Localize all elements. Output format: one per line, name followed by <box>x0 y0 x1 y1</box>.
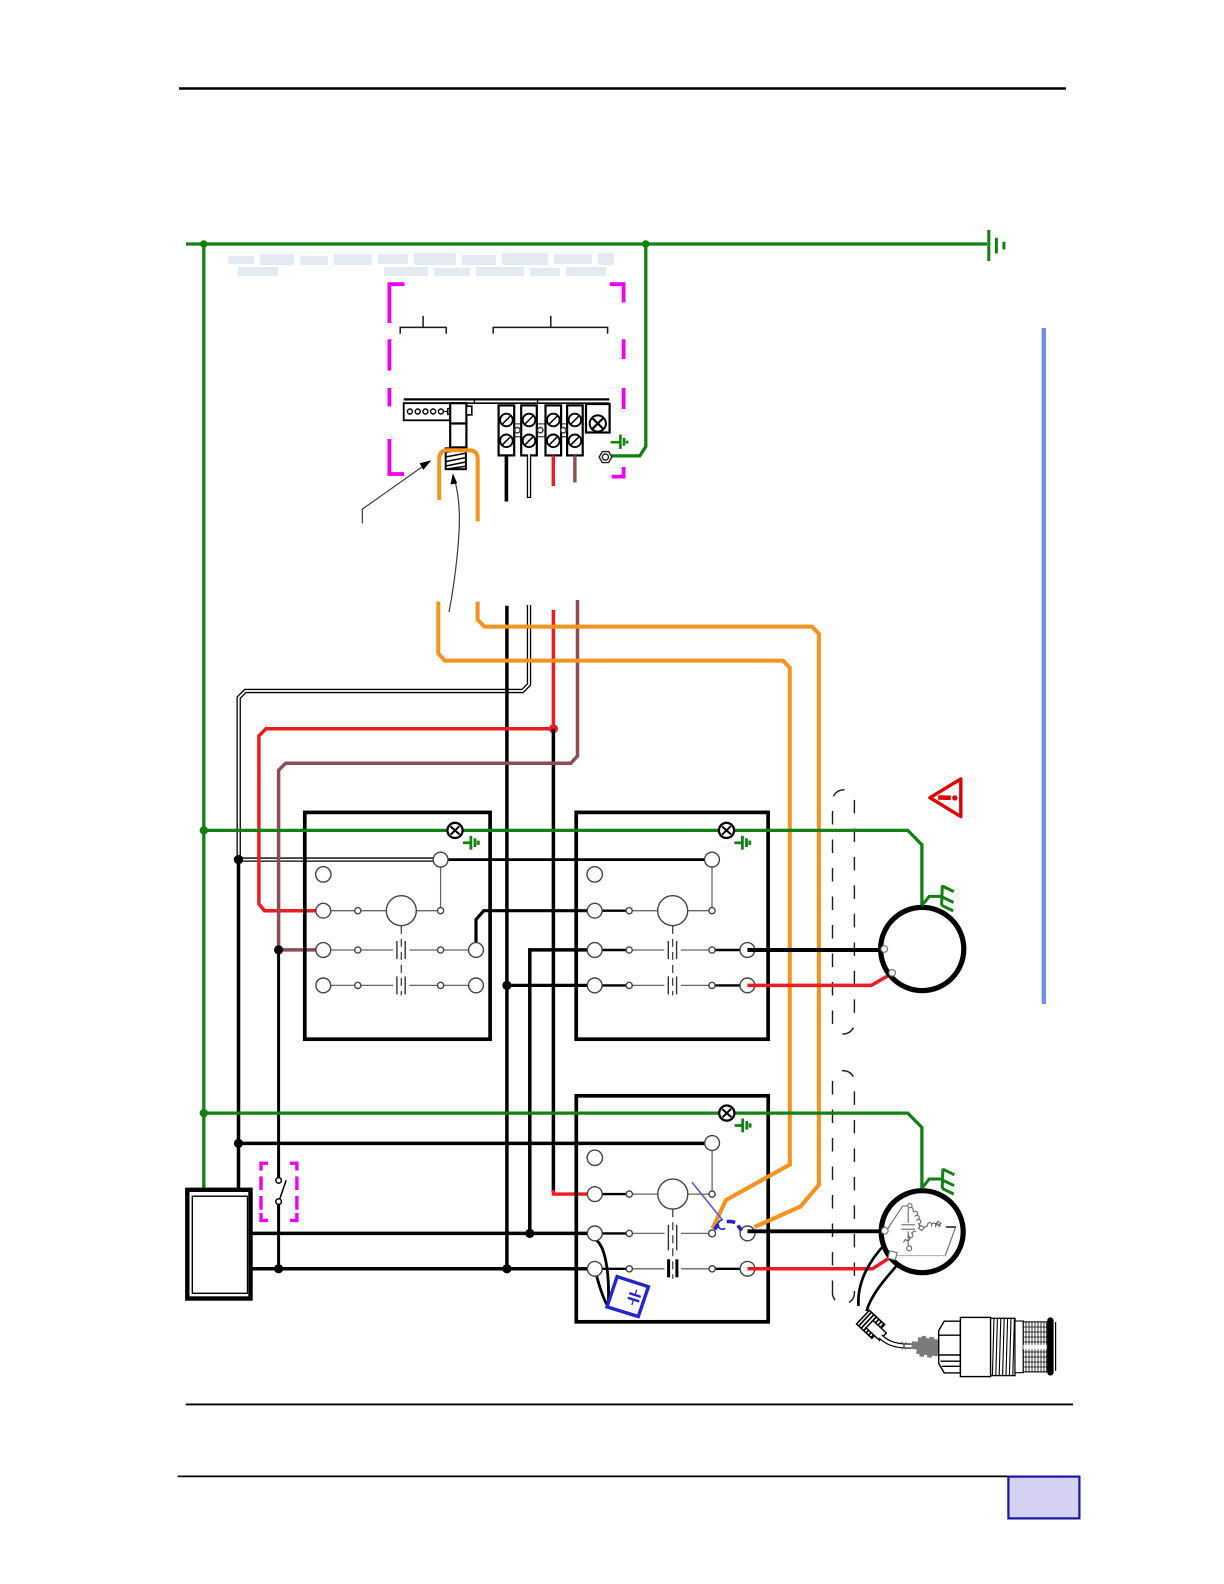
cable: thin cord from ferrule to plug <box>881 1337 913 1347</box>
node: junction with link vertical <box>525 1229 534 1238</box>
ghost text band <box>228 253 614 276</box>
footer rule 1 <box>186 1403 1073 1405</box>
ground: mini earth at K2 screw <box>734 836 749 850</box>
node: red junction <box>549 724 558 733</box>
wire: red run from terminal block to K1 coil <box>552 610 556 729</box>
switch S1 (key switch) <box>276 1178 286 1269</box>
motor M1 circle <box>881 907 964 990</box>
capacitor C1 leads <box>596 1240 609 1304</box>
connector: O-ring end <box>1047 1321 1053 1373</box>
header rule <box>179 87 1066 90</box>
footer rule 2 <box>178 1475 1080 1477</box>
wire: black battery row to K3 row3 <box>251 1267 588 1271</box>
relay contact dashed arc (blue) <box>715 1220 742 1231</box>
ground: earth symbol top right <box>989 230 1004 261</box>
wire: black branch from white junction down to battery charger <box>237 860 241 1190</box>
sidebar change bar (blue) <box>1042 328 1046 1004</box>
wire: black M2 feed from K3 row2 <box>748 1229 883 1233</box>
callout box: hand-held programmer (magenta dashed) <box>389 284 623 476</box>
wire: orange A from terminal area to K3 contact <box>438 602 790 1229</box>
warning triangle <box>930 779 961 817</box>
node: white wire junction dot <box>234 855 243 864</box>
wire: PE left vertical drop <box>202 244 205 1190</box>
connector: small gray plug <box>910 1335 940 1359</box>
connector: hatched plug tail <box>446 448 466 469</box>
contactor K3 internals <box>587 1136 755 1307</box>
wire: orange A tail into K3 (overlay) <box>713 1160 790 1228</box>
wire: red M2 feed from K3 row3 <box>748 1257 891 1268</box>
wire: PE bus 1 across contactors <box>204 830 922 907</box>
node: junction long black run <box>502 1264 511 1273</box>
node: junction on black run at K2 row3 <box>502 981 511 990</box>
screw: PE screw on K1 <box>447 823 462 838</box>
connector: control plug body <box>450 403 472 447</box>
contactor K1 outline <box>305 812 490 1039</box>
wire: orange loop over plug tail <box>439 450 478 521</box>
capacitor C1 (blue box) <box>607 1277 648 1317</box>
contactor K2 internals <box>587 852 755 995</box>
wire: red pigtail from terminal 3 <box>552 455 555 486</box>
wire: PE bus 2 across K3 <box>204 1113 922 1191</box>
motor M2 circle <box>881 1191 963 1273</box>
terminal: M2 connection points <box>882 1227 889 1234</box>
motor M2 internal winding diagram <box>887 1204 956 1256</box>
page number box <box>1008 1477 1079 1519</box>
node: PE junction at left vertical (bus2) <box>200 1109 208 1117</box>
leader arrow to control connector <box>362 460 431 523</box>
wire: black continuation below red junction to K3 coil <box>552 729 556 1192</box>
wire: black link K1 row2 output up and over to K2 coil <box>476 911 587 943</box>
callout box: switch (magenta dashed) <box>261 1163 297 1220</box>
terminal: M1 connection points <box>881 946 896 976</box>
dashed capsule cable channel upper <box>833 790 855 1034</box>
ground: chassis earth at M1 <box>922 885 954 911</box>
connector: main circular connector body <box>939 1317 991 1376</box>
wire: red M1 feed from K2 row3 <box>747 975 888 985</box>
wire: black M1 feed from K2 row2 <box>747 948 881 952</box>
wire: black from battery charger to K3 top contact <box>239 1142 713 1146</box>
ground: mini earth at K3 screw <box>735 1119 750 1133</box>
wire: PE middle vertical drop to terminal block earth stud <box>611 244 646 456</box>
screw: PE screw on K2 <box>719 823 734 838</box>
node: PE bus left junction <box>200 240 208 248</box>
terminal block: DIN rail section with screws <box>404 403 462 420</box>
terminal: ground lug with phillips screw <box>586 404 610 433</box>
cable: M2 to connector lead 2 <box>867 1263 900 1311</box>
wire: orange B from terminal area to K3 right terminal <box>478 602 819 1227</box>
contactor K1 internals <box>316 852 484 995</box>
ground: mini earth symbol at terminal block <box>611 435 627 449</box>
leader arrow to plug tail <box>449 473 459 612</box>
ground: chassis earth at M2 <box>922 1169 955 1195</box>
node: junction switch leg <box>274 1264 283 1273</box>
wire: white pigtail from terminal 2 <box>527 454 531 498</box>
connector: knurled grip section <box>1015 1321 1047 1373</box>
wire: black from junction down to service switch <box>277 950 280 1178</box>
dimension bracket right <box>493 316 607 334</box>
contactor K3 outline <box>576 1096 768 1322</box>
wire: black link K1 top contact to K2 top contact <box>441 858 705 861</box>
wire: white run from terminal block to contactor K1 <box>239 605 529 860</box>
node: PE bus middle junction <box>642 240 650 248</box>
node: PE junction at left vertical <box>200 826 208 834</box>
relay contact actuator line (blue) <box>692 1182 723 1220</box>
wire: black run from terminal block down to relay K3 row3 <box>505 606 509 1269</box>
ground: mini earth at K1 screw <box>463 836 478 850</box>
wire: black battery row to K3 row2 <box>251 1232 588 1236</box>
wire: brown run from terminal block to K1 row2 <box>279 600 578 950</box>
wire: PE top bus <box>186 242 987 245</box>
wire: black link from node on black run to K2 row3 <box>507 984 587 987</box>
wire: brown pigtail from terminal 4 <box>573 455 576 482</box>
wire: black pigtail from terminal 1 <box>505 455 509 501</box>
terminal block: 4-pole screw terminal strip <box>498 424 583 437</box>
node: junction at charger branch <box>234 1139 243 1148</box>
dimension bracket left <box>400 316 446 334</box>
connector: cable ferrule (hatched) <box>857 1310 885 1338</box>
node: brown/black junction at switch branch <box>274 945 283 954</box>
contactor K2 outline <box>576 812 768 1039</box>
wire: orange B tail to K3 right terminal (overlay) <box>755 1180 819 1227</box>
dashed capsule cable channel lower <box>833 1071 855 1304</box>
wire: red stub into K3 coil terminal <box>553 1190 587 1194</box>
wire: black link vertical to K2 row2 and battery row <box>530 950 588 1234</box>
cable: M2 to connector lead 1 <box>858 1243 886 1306</box>
terminal: earth stud hex nut <box>599 452 612 463</box>
terminal block: top mounting bar <box>404 399 610 403</box>
screw: PE screw on K3 <box>719 1106 734 1121</box>
connector: threaded section <box>991 1318 1015 1375</box>
battery charger box <box>187 1190 250 1299</box>
